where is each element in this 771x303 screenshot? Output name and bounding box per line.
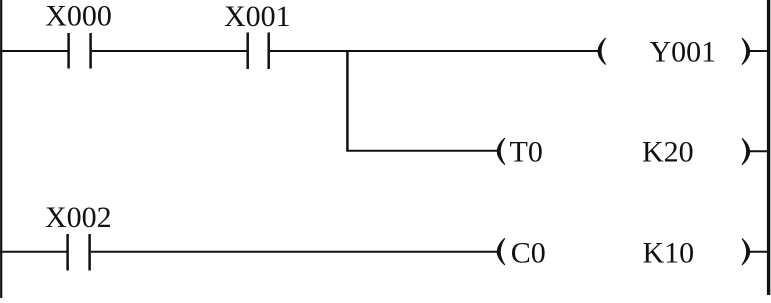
contact X001 — [248, 33, 269, 70]
label Y001 — [650, 36, 717, 69]
label X000 — [45, 0, 112, 33]
contact X000 — [69, 33, 91, 69]
label K10 — [643, 236, 695, 269]
junction branch vertical wire — [346, 51, 349, 151]
label C0 — [511, 236, 546, 269]
left power rail — [0, 0, 2, 298]
wire rung1: X000 to X001 — [92, 50, 247, 52]
counter C0 right parenthesis — [742, 239, 750, 265]
svg-text:C0: C0 — [511, 236, 546, 269]
timer T0 left parenthesis — [497, 138, 505, 165]
svg-text:Y001: Y001 — [650, 36, 717, 69]
svg-text:X001: X001 — [224, 0, 291, 33]
wire rung3: left rail to contact X002 — [0, 251, 67, 253]
label X002 — [45, 201, 112, 234]
label X001 — [224, 0, 291, 33]
coil Y001 left parenthesis — [598, 38, 606, 65]
counter C0 left parenthesis — [497, 238, 505, 265]
wire rung2: branch junction to timer T0 — [346, 150, 500, 152]
wire rung1: X001 to coil Y001 — [270, 50, 600, 52]
wire rung1: coil Y001 to right rail — [750, 50, 769, 52]
wire rung3: counter to right rail — [750, 251, 769, 253]
svg-text:X000: X000 — [45, 0, 112, 33]
wire rung1: left rail to contact X000 — [0, 50, 68, 52]
contact X002 — [68, 234, 90, 271]
timer T0 right parenthesis — [742, 138, 750, 165]
right power rail — [767, 0, 770, 295]
coil Y001 right parenthesis — [742, 38, 750, 65]
wire rung2: timer to right rail — [750, 150, 769, 152]
svg-text:K20: K20 — [642, 135, 694, 168]
label T0 — [510, 135, 543, 168]
svg-text:X002: X002 — [45, 201, 112, 234]
wire rung3: X002 to counter C0 — [91, 251, 501, 253]
svg-text:T0: T0 — [510, 135, 543, 168]
label K20 — [642, 135, 694, 168]
svg-text:K10: K10 — [643, 236, 695, 269]
